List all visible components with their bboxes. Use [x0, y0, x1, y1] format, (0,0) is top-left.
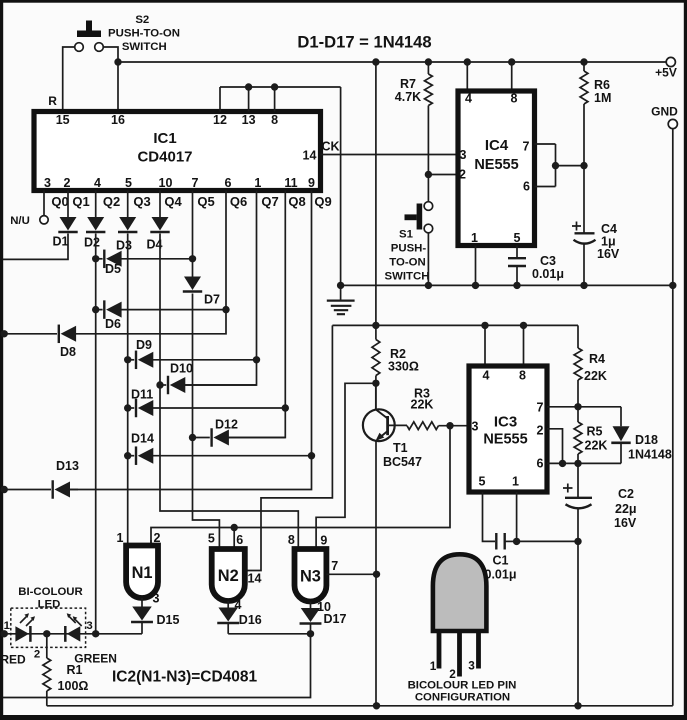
wire +5V rail [118, 61, 666, 63]
svg-text:4: 4 [483, 369, 490, 383]
svg-text:10: 10 [159, 176, 173, 190]
label BICOLOUR LED PIN CONFIGURATION [408, 680, 517, 704]
node D5 right [189, 255, 196, 262]
svg-text:2: 2 [64, 176, 71, 190]
svg-text:D15: D15 [157, 613, 180, 627]
svg-text:SWITCH: SWITCH [122, 41, 167, 53]
label D3 [116, 239, 132, 253]
gate N2 [212, 549, 245, 601]
svg-text:8: 8 [271, 113, 278, 127]
wire IC1 pin 12 up [219, 87, 221, 112]
svg-text:3: 3 [460, 148, 467, 162]
node pin6 R5 junction [574, 460, 581, 467]
svg-text:16V: 16V [614, 516, 637, 530]
svg-text:C2: C2 [618, 487, 634, 501]
svg-text:1: 1 [471, 231, 478, 245]
svg-text:D13: D13 [56, 459, 79, 473]
svg-text:D2: D2 [84, 236, 100, 250]
node pin7 R4 junction [574, 403, 581, 410]
svg-text:S1: S1 [399, 229, 414, 241]
switch S1 plunger [405, 204, 423, 230]
diode D5 [96, 250, 193, 268]
label R2 330 [388, 347, 419, 374]
svg-text:N/U: N/U [10, 215, 30, 227]
wire reset line y87 to ground drop [220, 86, 341, 88]
diode D18 [611, 407, 630, 464]
wire D17 node down to green return [3, 634, 311, 698]
svg-text:D11: D11 [131, 388, 153, 402]
node ground rail junctions [337, 282, 677, 289]
LED package pin labels [430, 659, 476, 682]
label D1 [53, 235, 69, 249]
svg-text:5: 5 [514, 231, 521, 245]
resistor R2 [372, 325, 380, 383]
svg-text:22K: 22K [585, 439, 608, 453]
svg-text:8: 8 [288, 533, 295, 547]
node pin8 junction [271, 83, 278, 90]
svg-text:14: 14 [248, 572, 262, 586]
diode D12 [193, 428, 286, 447]
label R6 1M [594, 78, 611, 105]
diode D15 [131, 598, 153, 634]
label D13 [56, 459, 79, 473]
node C2 bottom [574, 702, 581, 709]
svg-text:4: 4 [94, 176, 101, 190]
wire bracket to R6 [556, 165, 585, 167]
label IC2(N1-N3)=CD4081 [112, 669, 258, 686]
label R4 22K [584, 352, 607, 383]
label C2 22u 16V [614, 487, 637, 530]
diode D7 [183, 277, 202, 292]
wire D16 to D17 anodes [228, 633, 310, 635]
node R6 bottom junction [580, 162, 587, 169]
label C4 1u 16V [597, 222, 620, 261]
svg-text:D17: D17 [324, 612, 347, 626]
wire R2 bottom to N3 pin 9 route [316, 383, 376, 549]
label 14 [248, 572, 262, 586]
svg-text:12: 12 [213, 113, 227, 127]
label C1 0.01u [485, 554, 517, 582]
capacitor C3 [508, 258, 526, 285]
svg-text:BI-COLOUR: BI-COLOUR [18, 586, 83, 598]
svg-text:C3: C3 [540, 254, 556, 268]
node LED left rail [0, 630, 7, 637]
wire bottom ground rail [47, 705, 673, 707]
diode D16 [217, 601, 239, 634]
wire IC4 pin 6 [535, 186, 556, 188]
svg-text:Q2: Q2 [103, 194, 120, 209]
wire D7 cathode to N2 pin 5 [193, 294, 220, 550]
wire IC3 pin 8 up [523, 325, 525, 366]
label R5 22K [585, 425, 608, 453]
svg-text:D9: D9 [136, 338, 152, 352]
node LED pin3 junction [92, 630, 99, 637]
diode D9 [128, 351, 257, 370]
node R2 bottom [372, 380, 379, 387]
wire IC4 pin 8 up [511, 62, 513, 91]
node D14 right [308, 452, 315, 459]
svg-text:2: 2 [34, 649, 40, 661]
wire pin1 to C2 column [517, 540, 578, 542]
terminal N/U circle [40, 216, 48, 224]
wire Q3 from IC1 pin 5 [127, 191, 129, 218]
svg-text:R1: R1 [67, 663, 83, 677]
svg-text:14: 14 [303, 149, 317, 163]
label S1 PUSH-TO-ON SWITCH [385, 229, 430, 283]
svg-text:D3: D3 [116, 239, 132, 253]
node D6 left [92, 306, 99, 313]
node D10 left [156, 381, 163, 388]
wire N3 pin 7 to emitter line [326, 573, 376, 575]
svg-text:3: 3 [472, 420, 479, 434]
svg-text:+5V: +5V [655, 66, 677, 80]
svg-text:Q6: Q6 [230, 194, 247, 209]
svg-text:R7: R7 [400, 77, 416, 91]
svg-text:R6: R6 [594, 78, 610, 92]
svg-text:BICOLOUR LED PIN: BICOLOUR LED PIN [408, 680, 517, 692]
svg-text:6: 6 [225, 176, 232, 190]
capacitor C2 [563, 463, 592, 705]
diode D6 [96, 300, 226, 319]
wire IC4 pin 1 to ground rail [475, 246, 477, 286]
label D1-D17 = 1N4148 [297, 33, 431, 52]
wire IC3 pin 2 [547, 429, 563, 464]
svg-text:D8: D8 [60, 345, 76, 359]
label R [48, 94, 57, 108]
wire Q5 from IC1 pin 7 [192, 191, 194, 277]
svg-text:3: 3 [44, 176, 51, 190]
svg-text:D14: D14 [131, 432, 154, 446]
svg-text:C1: C1 [493, 554, 509, 568]
svg-text:5: 5 [125, 176, 132, 190]
svg-text:7: 7 [192, 176, 199, 190]
svg-text:15: 15 [56, 113, 70, 127]
wire IC4 pin 5 to C3 [516, 246, 518, 259]
wire Q7 from IC1 pin 1 [183, 191, 256, 386]
svg-text:IC2(N1-N3)=CD4081: IC2(N1-N3)=CD4081 [112, 669, 258, 686]
svg-text:GND: GND [651, 105, 678, 119]
node IC3 pin3 junction [446, 422, 453, 429]
svg-text:1M: 1M [594, 91, 611, 105]
wire GND vertical [672, 129, 674, 706]
svg-text:8: 8 [519, 369, 526, 383]
node D17 anode junction [307, 630, 314, 637]
LED green diode [65, 613, 81, 642]
svg-text:Q7: Q7 [261, 194, 278, 209]
label N3 output 10 [317, 600, 331, 614]
label D16 [239, 613, 262, 627]
svg-text:NE555: NE555 [474, 157, 518, 173]
svg-text:PUSH-TO-ON: PUSH-TO-ON [108, 28, 180, 40]
resistor R3 [407, 422, 468, 430]
svg-text:Q5: Q5 [197, 194, 214, 209]
node D6 right [222, 306, 229, 313]
diode D3 [118, 217, 137, 232]
svg-text:TO-ON: TO-ON [389, 257, 426, 269]
label D18 1N4148 [628, 433, 672, 462]
IC1 bottom pin numbers [44, 176, 315, 190]
svg-text:1: 1 [4, 620, 11, 632]
node C1 pin1 junction [513, 538, 520, 545]
node rail IC3 pin8 [520, 322, 527, 329]
node D9 left [124, 356, 131, 363]
wire Q4 from IC1 pin 10 [159, 191, 161, 218]
node emitter bottom [373, 702, 380, 709]
diode D17 [300, 602, 322, 634]
node D13 left rail [0, 486, 7, 493]
svg-text:330Ω: 330Ω [388, 360, 419, 374]
svg-text:16: 16 [111, 113, 125, 127]
label D7 [204, 293, 220, 307]
wire IC3 pin 7 [547, 406, 621, 408]
node pin13 junction [245, 83, 252, 90]
gate N3 [295, 549, 327, 602]
svg-text:9: 9 [320, 534, 327, 548]
svg-text:5: 5 [479, 475, 486, 489]
svg-text:D16: D16 [239, 613, 262, 627]
svg-text:8: 8 [511, 92, 518, 106]
wire D1 cathode to left rail [3, 234, 68, 260]
IC1 pin 14 label [303, 149, 317, 163]
wire x341 down to ground rail [340, 87, 342, 285]
svg-text:N3: N3 [300, 568, 321, 586]
svg-text:PUSH-: PUSH- [391, 243, 427, 255]
node S2/+5V junction [114, 58, 121, 65]
node rail IC3 pin4 [481, 322, 488, 329]
svg-text:3: 3 [86, 620, 92, 632]
svg-text:D1-D17 = 1N4148: D1-D17 = 1N4148 [297, 33, 431, 52]
wire Q9 from IC1 pin 9 [68, 191, 311, 490]
svg-text:6: 6 [537, 457, 544, 471]
svg-text:5: 5 [208, 532, 215, 546]
svg-text:D7: D7 [204, 293, 220, 307]
diode D14 [128, 446, 312, 465]
wire IC1 pin 13 up [248, 87, 250, 112]
node D11 left [124, 404, 131, 411]
node IC4 pin8 top [508, 58, 515, 65]
+5V terminal [655, 57, 677, 79]
switch S1 contacts [424, 202, 433, 233]
label D9 [136, 338, 152, 352]
label D11 [131, 388, 153, 402]
wire Q2 from IC1 pin 4 [95, 191, 97, 218]
svg-text:1: 1 [512, 475, 519, 489]
bicolour LED package drawing [433, 554, 487, 676]
wire S2 right to IC1 pin 16 [103, 47, 118, 112]
svg-text:IC1: IC1 [153, 130, 176, 147]
node pin6 pin2 junction [559, 460, 566, 467]
node bracket mid [552, 162, 559, 169]
diode D13 [3, 480, 78, 499]
wire Q1 from IC1 pin 2 [67, 191, 69, 218]
switch S2 contacts [75, 43, 104, 52]
IC3 pin numbers [472, 369, 544, 489]
switch S2 plunger [77, 21, 101, 38]
svg-text:CD4017: CD4017 [137, 149, 192, 166]
svg-text:1: 1 [430, 659, 437, 673]
wire IC3 pin 4 up [484, 325, 486, 366]
svg-text:0.01μ: 0.01μ [485, 568, 517, 582]
svg-text:7: 7 [523, 140, 530, 154]
node R6 top [580, 58, 587, 65]
label D6 [105, 317, 121, 331]
wire IC3 pin3 feedback to N1/N2 [151, 426, 450, 546]
node N2 pin6 junction [231, 524, 238, 531]
diode D11 [128, 399, 286, 418]
svg-text:Q1: Q1 [72, 194, 89, 209]
diode D8 [3, 325, 77, 344]
svg-text:22μ: 22μ [615, 502, 637, 516]
diode D1 [58, 217, 77, 232]
label D15 [157, 613, 180, 627]
label GREEN [74, 652, 117, 666]
wire Q0 pin3 to N/U [43, 191, 45, 216]
svg-text:16V: 16V [597, 247, 620, 261]
svg-text:D5: D5 [105, 262, 121, 276]
wire S1 bottom to ground rail [427, 233, 429, 286]
svg-text:IC4: IC4 [485, 137, 509, 154]
svg-text:Q8: Q8 [288, 194, 305, 209]
svg-text:3: 3 [153, 592, 160, 606]
svg-text:IC3: IC3 [494, 414, 517, 431]
wire IC3 pin 1 down [516, 492, 518, 541]
node D8 left rail [0, 330, 7, 337]
svg-text:22K: 22K [411, 398, 434, 412]
svg-text:D6: D6 [105, 317, 121, 331]
node D14 left [124, 452, 131, 459]
node N3 pin7 junction [373, 571, 380, 578]
N2 pin labels [208, 532, 243, 548]
label R3 22K [411, 387, 434, 412]
svg-text:1N4148: 1N4148 [628, 448, 672, 462]
svg-text:Q3: Q3 [133, 194, 150, 209]
label D17 [324, 612, 347, 626]
svg-text:7: 7 [331, 559, 338, 573]
wire lower +5V rail y325 [332, 324, 578, 326]
wire pin7-pin6 bracket [555, 144, 557, 187]
wire IC3 pin 5 to C1 [483, 492, 496, 541]
N1 pin labels [117, 531, 161, 545]
node C2 column junction [574, 538, 581, 545]
label N1 output 3 [153, 592, 160, 606]
node rail R2 junction [372, 322, 379, 329]
label C3 0.01u [532, 254, 564, 281]
resistor R5 [574, 407, 582, 464]
diode D4 [150, 217, 169, 232]
ground symbol [327, 285, 355, 314]
label D8 [60, 345, 76, 359]
svg-text:0.01μ: 0.01μ [532, 267, 564, 281]
IC U4 NE555 body [458, 91, 535, 246]
label D12 [215, 418, 238, 432]
resistor R4 [574, 325, 582, 406]
label D10 [170, 362, 193, 376]
label R1 100 [58, 663, 89, 693]
N3 pin labels [288, 533, 328, 548]
wire Q4 net down to N3 pin 8 [160, 234, 298, 550]
GND terminal [651, 105, 678, 129]
svg-text:D18: D18 [635, 433, 658, 447]
IC1 output labels Q0-Q9 [51, 194, 331, 209]
wire IC2 pin 14 to +5V rail [247, 325, 332, 570]
wire IC4 pin 2 [428, 174, 458, 176]
node IC4 pin4 top [464, 58, 471, 65]
capacitor C1 [496, 533, 516, 550]
svg-text:BC547: BC547 [383, 455, 422, 469]
label T1 BC547 [383, 441, 422, 469]
label D2 [84, 236, 100, 250]
svg-text:3: 3 [468, 659, 475, 673]
IC U1 CD4017 body [34, 112, 321, 191]
svg-text:CK: CK [321, 140, 339, 154]
label D4 [147, 238, 163, 252]
node D11 right [282, 404, 289, 411]
svg-text:D12: D12 [215, 418, 238, 432]
label D14 [131, 432, 154, 446]
LED red diode [15, 613, 35, 642]
svg-text:NE555: NE555 [483, 432, 527, 448]
resistor R6 [580, 62, 588, 233]
node LED centre [43, 630, 50, 637]
wire CK from IC1 pin 14 to IC4 pin 3 [321, 154, 459, 156]
wire N2 input 6 [233, 528, 235, 550]
wire IC3 pin 6 [547, 462, 621, 464]
diode D10 [160, 376, 257, 395]
diode D2 [86, 217, 105, 232]
label S2 PUSH-TO-ON SWITCH [108, 14, 180, 53]
node R7 top [425, 58, 432, 65]
node D9 right [253, 356, 260, 363]
label BI-COLOUR LED [18, 586, 83, 611]
wire Q3 net down to N1 pin 1 [127, 234, 129, 546]
wire S2 left to IC1 pin 15 [63, 47, 75, 112]
bi-colour LED dashed box [11, 608, 86, 647]
svg-text:2: 2 [459, 168, 466, 182]
svg-text:CONFIGURATION: CONFIGURATION [415, 692, 510, 704]
svg-text:D1: D1 [53, 235, 69, 249]
wire Q2 net down to LED [95, 234, 97, 634]
svg-text:4.7K: 4.7K [395, 90, 421, 104]
svg-text:Q4: Q4 [164, 194, 182, 209]
resistor R1 [43, 634, 51, 706]
wire ground rail y285 [341, 284, 673, 286]
transistor Q1 BC547 [363, 383, 407, 706]
svg-text:T1: T1 [393, 441, 408, 455]
svg-text:S2: S2 [135, 14, 149, 26]
node D5 left [92, 255, 99, 262]
wire IC4 pin 7 [535, 143, 556, 145]
svg-text:6: 6 [523, 180, 530, 194]
label N2 output 4 [235, 598, 242, 612]
resistor R7 [425, 62, 433, 202]
svg-text:D10: D10 [170, 362, 193, 376]
svg-text:100Ω: 100Ω [58, 679, 89, 693]
svg-text:1: 1 [254, 176, 261, 190]
IC U3 NE555 body [469, 366, 547, 492]
svg-text:1: 1 [117, 531, 124, 545]
wire IC1 pin 8 up [274, 87, 276, 112]
svg-text:R4: R4 [589, 352, 605, 366]
svg-text:Q9: Q9 [314, 194, 331, 209]
svg-text:11: 11 [284, 176, 297, 190]
svg-text:2: 2 [154, 531, 161, 545]
wire Q6 from IC1 pin 6 [75, 191, 227, 334]
svg-text:13: 13 [242, 113, 256, 127]
label R7 4.7K [395, 77, 421, 104]
label D5 [105, 262, 121, 276]
svg-text:R: R [48, 94, 57, 108]
svg-text:22K: 22K [584, 369, 607, 383]
